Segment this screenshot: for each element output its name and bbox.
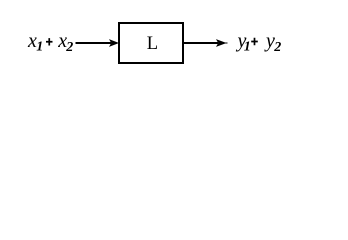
wire input arrow [76,39,120,47]
wire output arrow [184,39,228,47]
svg-text:L: L [147,34,158,54]
svg-text:1: 1 [36,40,43,55]
svg-text:2: 2 [65,40,73,55]
node output label y1 + y2 [236,30,282,55]
block L (system box) [119,23,183,63]
svg-text:2: 2 [273,40,281,55]
node input label x1 + x2 [27,30,73,55]
svg-text:1: 1 [244,39,251,54]
